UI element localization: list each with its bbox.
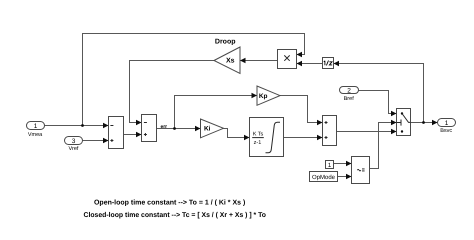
svg-text:1: 1 xyxy=(445,120,449,127)
svg-text:Open-loop time constant --> To: Open-loop time constant --> To = 1 / ( K… xyxy=(94,198,245,206)
svg-text:Closed-loop time constant -->: Closed-loop time constant --> Tc = [ Xs … xyxy=(84,211,267,219)
svg-text:3: 3 xyxy=(72,138,76,145)
svg-text:Vref: Vref xyxy=(69,146,79,152)
svg-text:Bref: Bref xyxy=(344,96,355,102)
svg-text:Bsvc: Bsvc xyxy=(440,128,452,134)
svg-text:Droop: Droop xyxy=(215,38,236,45)
svg-text:z-1: z-1 xyxy=(254,140,262,146)
svg-text:Ki: Ki xyxy=(204,125,211,132)
svg-text:Vmea: Vmea xyxy=(28,132,43,138)
svg-text:Kp: Kp xyxy=(259,93,268,100)
svg-text:Xs: Xs xyxy=(226,58,235,65)
svg-text:K Ts: K Ts xyxy=(253,132,264,138)
svg-text:2: 2 xyxy=(347,87,351,94)
svg-text:err: err xyxy=(160,124,167,130)
svg-text:1: 1 xyxy=(34,123,38,130)
svg-text:OpMode: OpMode xyxy=(312,174,336,181)
